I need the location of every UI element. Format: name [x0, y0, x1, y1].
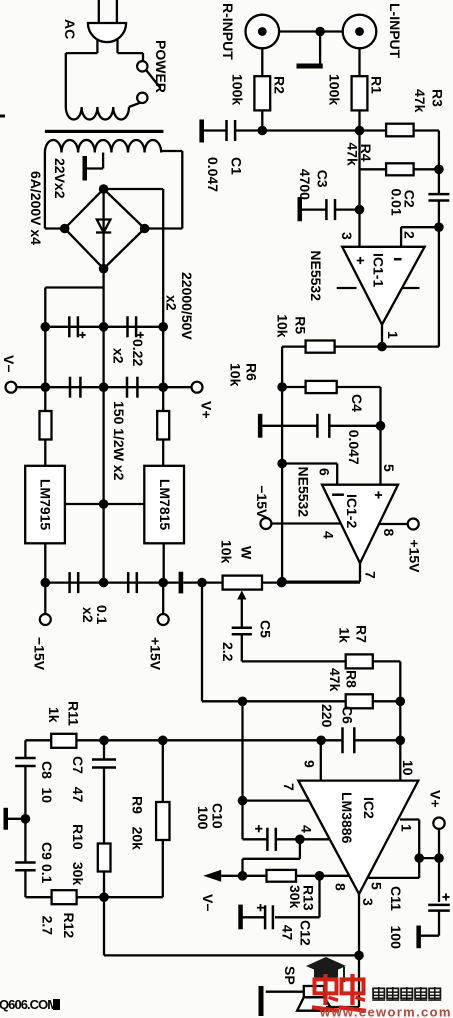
svg-text:10k: 10k	[275, 314, 291, 338]
svg-text:3: 3	[339, 232, 355, 240]
svg-text:2.7: 2.7	[40, 916, 56, 936]
svg-text:LM7915: LM7915	[38, 479, 54, 531]
svg-text:8: 8	[381, 529, 397, 537]
svg-text:100: 100	[195, 806, 211, 830]
svg-text:7: 7	[363, 571, 379, 579]
svg-text:150 1/2W x2: 150 1/2W x2	[111, 401, 127, 481]
svg-text:5: 5	[381, 464, 397, 472]
svg-text:C9: C9	[39, 842, 55, 860]
svg-text:NE5532: NE5532	[308, 250, 324, 301]
svg-text:0.1: 0.1	[39, 864, 55, 884]
svg-text:100k: 100k	[230, 74, 246, 105]
svg-text:4700: 4700	[297, 169, 313, 200]
svg-text:IC1-1: IC1-1	[371, 253, 387, 287]
svg-text:100: 100	[388, 926, 404, 950]
svg-text:R8: R8	[344, 670, 360, 688]
svg-text:R-INPUT: R-INPUT	[220, 3, 236, 60]
svg-text:22Vx2: 22Vx2	[52, 158, 68, 199]
svg-text:220: 220	[319, 704, 335, 728]
svg-text:x2: x2	[111, 348, 127, 364]
svg-text:4: 4	[299, 825, 315, 833]
svg-text:1k: 1k	[337, 627, 353, 643]
svg-text:R9: R9	[130, 796, 146, 814]
svg-text:www.eeworm.com: www.eeworm.com	[319, 1005, 452, 1018]
svg-text:2: 2	[402, 231, 418, 239]
svg-text:LM7815: LM7815	[157, 479, 173, 531]
svg-text:R11: R11	[66, 701, 82, 726]
svg-text:V+: V+	[199, 401, 215, 419]
svg-text:C4: C4	[349, 394, 365, 412]
svg-text:30k: 30k	[287, 885, 303, 909]
svg-text:1: 1	[399, 824, 415, 832]
svg-text:C5: C5	[258, 620, 274, 638]
svg-text:20k: 20k	[130, 827, 146, 851]
svg-text:1: 1	[385, 331, 401, 339]
svg-text:AC: AC	[62, 19, 78, 39]
svg-text:6: 6	[317, 468, 333, 476]
svg-text:0.047: 0.047	[205, 157, 221, 192]
svg-text:47: 47	[280, 925, 296, 941]
svg-text:100k: 100k	[327, 74, 343, 105]
svg-text:0.22: 0.22	[130, 339, 146, 366]
svg-text:C1: C1	[229, 157, 245, 175]
svg-text:POWER: POWER	[153, 40, 169, 93]
svg-text:47k: 47k	[345, 142, 361, 166]
svg-text:R7: R7	[354, 625, 370, 643]
svg-text:6A/200V x4: 6A/200V x4	[28, 171, 44, 245]
svg-text:LM3886: LM3886	[339, 792, 355, 844]
svg-text:3: 3	[360, 898, 376, 906]
svg-text:47k: 47k	[327, 668, 343, 692]
svg-text:30k: 30k	[70, 862, 86, 886]
svg-text:22000/50V: 22000/50V	[179, 272, 195, 340]
svg-text:NE5532: NE5532	[296, 467, 312, 518]
svg-text:0.047: 0.047	[346, 430, 362, 465]
svg-text:4: 4	[321, 531, 337, 539]
svg-text:SP: SP	[282, 966, 298, 985]
svg-text:C6: C6	[340, 706, 356, 724]
svg-text:L-INPUT: L-INPUT	[387, 3, 403, 59]
svg-text:8: 8	[333, 883, 349, 891]
svg-text:+15V: +15V	[148, 637, 164, 671]
svg-text:C3: C3	[315, 170, 331, 188]
svg-text:10: 10	[400, 760, 416, 776]
svg-text:R5: R5	[293, 316, 309, 334]
svg-text:1k: 1k	[46, 707, 62, 723]
svg-text:47k: 47k	[412, 89, 428, 113]
svg-text:V−: V−	[200, 894, 216, 912]
svg-text:R10: R10	[70, 824, 86, 850]
svg-text:IC1-2: IC1-2	[344, 494, 360, 528]
svg-text:W: W	[239, 546, 255, 560]
svg-text:C7: C7	[70, 756, 86, 774]
svg-text:C11: C11	[388, 886, 404, 911]
svg-text:V−: V−	[1, 355, 17, 373]
svg-text:−15V: −15V	[254, 485, 270, 519]
svg-text:R1: R1	[369, 76, 385, 94]
svg-text:R2: R2	[272, 76, 288, 94]
svg-text:9: 9	[302, 760, 318, 768]
svg-text:C12: C12	[298, 920, 314, 946]
svg-text:10k: 10k	[228, 363, 244, 387]
svg-text:R12: R12	[61, 913, 77, 939]
svg-text:R6: R6	[244, 363, 260, 381]
svg-text:2.2: 2.2	[220, 642, 236, 662]
svg-text:x2: x2	[164, 295, 180, 311]
svg-text:+15V: +15V	[407, 539, 423, 573]
svg-text:IC2: IC2	[361, 797, 377, 819]
svg-text:Q606.COM: Q606.COM	[0, 997, 57, 1012]
svg-text:10k: 10k	[219, 540, 235, 564]
svg-text:V+: V+	[428, 790, 444, 808]
svg-text:−15V: −15V	[32, 637, 48, 671]
svg-text:R3: R3	[430, 89, 446, 107]
svg-text:5: 5	[369, 882, 385, 890]
svg-text:47: 47	[70, 787, 86, 803]
svg-text:C8: C8	[39, 761, 55, 779]
svg-text:7: 7	[281, 783, 297, 791]
svg-text:10: 10	[39, 788, 55, 804]
svg-text:x2: x2	[80, 607, 96, 623]
svg-text:0.01: 0.01	[389, 189, 405, 216]
